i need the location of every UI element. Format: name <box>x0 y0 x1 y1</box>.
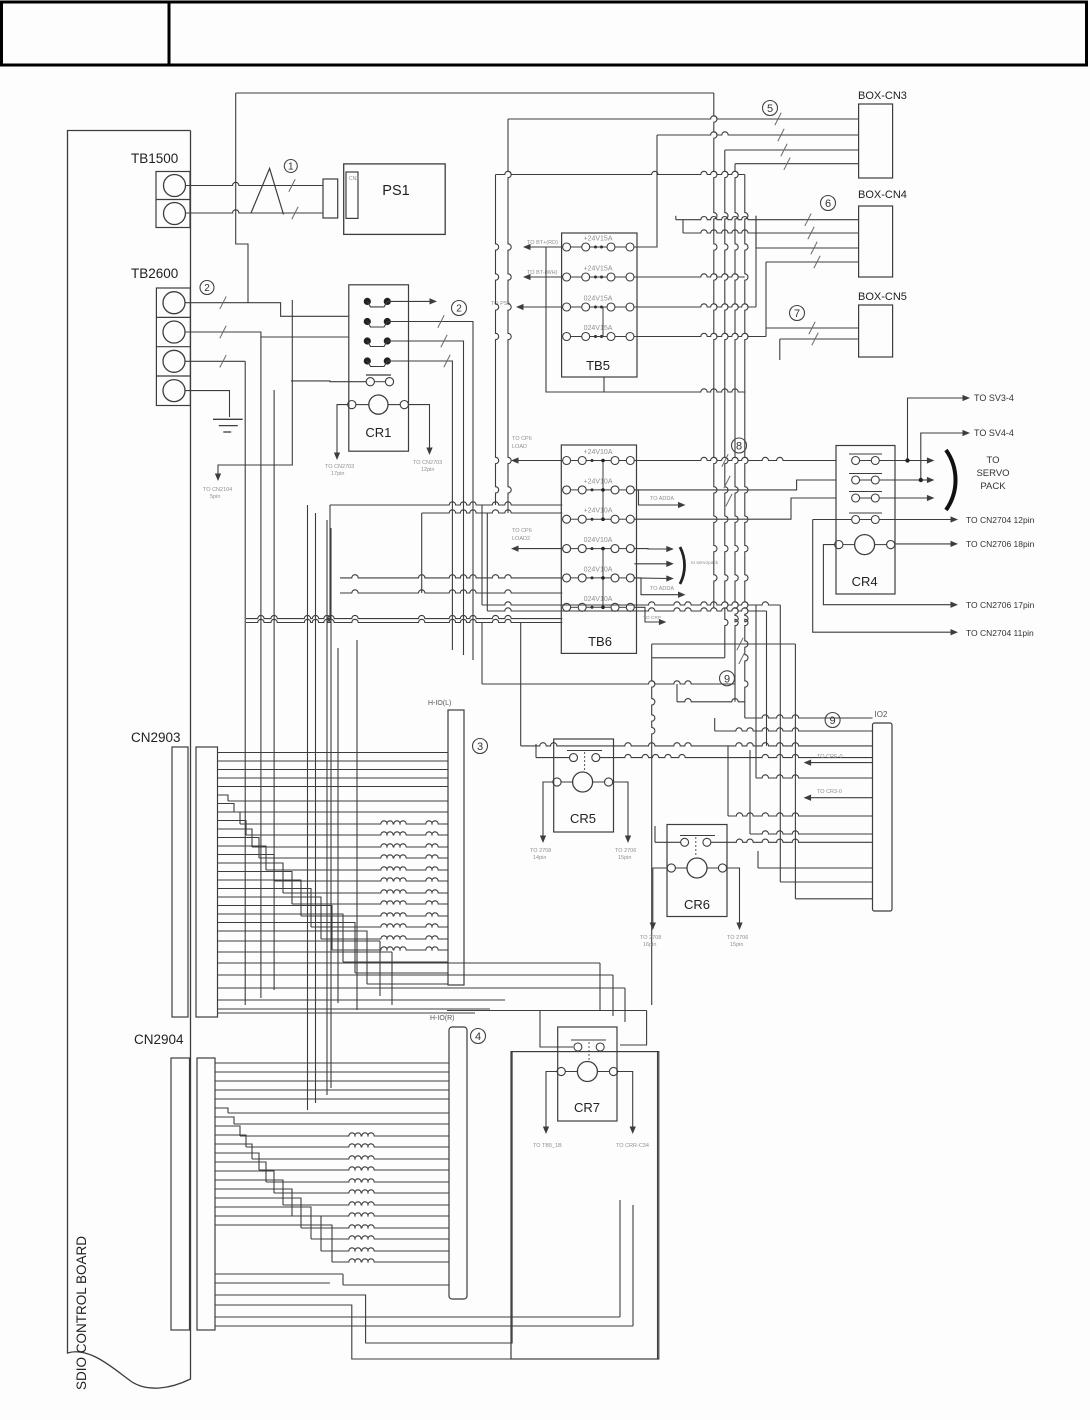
CR4 feed wire 3 <box>634 498 836 519</box>
svg-text:7: 7 <box>794 308 800 320</box>
CR4 contact row 4 <box>852 516 860 524</box>
CN2904 bottom harness wires <box>215 1273 343 1275</box>
CR7 enclosure rect <box>511 1052 659 1359</box>
IO2 box <box>873 723 893 911</box>
IO2 wire y834 <box>749 750 751 834</box>
svg-text:6: 6 <box>825 198 831 210</box>
CN2904 wires to right <box>215 1316 620 1318</box>
svg-text:TO: TO <box>986 455 999 466</box>
TB5 row3 right wire <box>634 304 756 307</box>
CR1 contact row 4 <box>364 357 371 364</box>
TB2600 row4 wire to ground <box>185 391 230 417</box>
left corridor vertical D <box>218 300 292 476</box>
svg-text:5pin: 5pin <box>210 494 220 500</box>
svg-text:15pin: 15pin <box>618 855 631 861</box>
CR7 contact <box>571 1039 606 1041</box>
TB6 row2 right wire TO ADDA <box>634 490 680 505</box>
svg-text:17pin: 17pin <box>331 471 344 477</box>
left corridor vertical H <box>330 528 332 1088</box>
left corridor vertical C <box>273 390 275 990</box>
IO2 wire y718 <box>744 702 746 718</box>
CN2904 loop wires to CR7 enclosure <box>215 1052 512 1343</box>
vertical 651 down <box>652 658 655 1005</box>
svg-text:3: 3 <box>477 741 483 753</box>
title block divider <box>168 2 171 65</box>
TB2600 terminal circle 1 <box>163 292 185 314</box>
circled 8 <box>732 438 747 453</box>
wire TB1500-1 to PS1 <box>186 182 324 185</box>
bundle y611 <box>486 513 488 611</box>
connector CN2903 inner <box>196 747 218 1017</box>
CR1 coil <box>369 395 388 414</box>
TB6 row 6 terminals 024V10A <box>563 603 571 611</box>
svg-text:TO CN2703: TO CN2703 <box>413 460 442 466</box>
CR4 coil <box>855 535 875 555</box>
vertical right bus 725 <box>725 150 728 658</box>
title block frame <box>2 2 1087 65</box>
vertical x357 bundle down <box>356 640 358 1010</box>
svg-text:TO ADDA: TO ADDA <box>650 586 674 592</box>
CN2903 lowest wires <box>218 940 381 942</box>
svg-text:BOX-CN3: BOX-CN3 <box>858 90 907 102</box>
circled 2 at TB2600 <box>200 281 214 295</box>
TB6 row 2 terminals +24V10A <box>563 486 571 494</box>
IO2 wire y868 <box>758 867 873 869</box>
CR4 contact row 2 <box>852 476 860 484</box>
circled 7 <box>790 306 805 321</box>
TB5 row1 right wire <box>634 135 657 247</box>
IO2 arrow TO CRE <box>809 762 873 764</box>
relay CR7 box <box>558 1027 617 1121</box>
connector BOX-CN3 <box>859 104 893 178</box>
connector BOX-CN5 <box>859 305 893 357</box>
circled 5 <box>763 101 778 116</box>
svg-text:SDIO CONTROL BOARD: SDIO CONTROL BOARD <box>74 1236 89 1390</box>
relay CR4 box <box>836 446 895 595</box>
svg-text:TO CN2706 17pin: TO CN2706 17pin <box>966 600 1035 610</box>
svg-text:LOAD2: LOAD2 <box>512 536 530 542</box>
wire TB1500-2 to PS1 <box>186 210 324 213</box>
svg-text:+24V10A: +24V10A <box>584 508 613 515</box>
TB5 row 4 terminals 024V15A <box>563 333 571 341</box>
CR1 contact row 3 <box>364 337 371 344</box>
svg-text:TB1500: TB1500 <box>131 151 178 166</box>
svg-text:024V15A: 024V15A <box>584 325 613 332</box>
svg-text:15pin: 15pin <box>730 942 743 948</box>
svg-text:PACK: PACK <box>980 481 1006 492</box>
BOX-CN3 wires <box>508 116 859 119</box>
horizontal bus y215 <box>675 216 677 220</box>
TB5 left feed vertical <box>546 247 563 337</box>
CN2904 to H-IO(R) harness <box>215 1062 449 1064</box>
TB5 row 3 terminals 024V15A <box>563 303 571 311</box>
TB6 row4 left arrow TO CP6 LOAD2 <box>516 548 562 550</box>
connector plug at PS1 <box>323 179 338 218</box>
svg-text:5: 5 <box>767 103 773 115</box>
left corridor vertical F <box>315 513 317 1103</box>
svg-text:CR7: CR7 <box>574 1100 600 1115</box>
svg-text:8: 8 <box>736 440 742 452</box>
left corridor vertical G <box>326 520 328 1095</box>
TB6 servo arc <box>680 547 685 584</box>
svg-text:TO CN2704 11pin: TO CN2704 11pin <box>966 628 1034 638</box>
svg-text:TO CRE-0: TO CRE-0 <box>817 754 843 760</box>
IO2 wire y731 <box>714 718 716 731</box>
svg-text:CR4: CR4 <box>852 574 878 589</box>
bundle y701 <box>677 699 745 702</box>
wire TO CN2706 18pin <box>895 543 953 545</box>
connector CN2903 outer <box>172 747 188 1017</box>
svg-text:BOX-CN4: BOX-CN4 <box>858 189 907 201</box>
bundle y605 <box>481 505 483 605</box>
svg-text:CN2: CN2 <box>349 176 359 182</box>
CR1 aux contact <box>366 374 391 376</box>
circled 1 at PS1 feed <box>284 160 297 173</box>
svg-text:TO CP6: TO CP6 <box>512 436 532 442</box>
wire loop above CR7 <box>447 1010 647 1012</box>
circled 3 <box>473 739 488 754</box>
svg-text:TO SV4-4: TO SV4-4 <box>974 428 1014 438</box>
CR6 contact wires <box>655 841 681 843</box>
CR1 coil right wire to CN2703 <box>408 405 429 450</box>
CR4 feed wire 2 <box>634 480 836 490</box>
CR1 row2 wire right <box>387 322 473 661</box>
relay CR1 box <box>349 285 409 451</box>
CR1 contact row 2 <box>364 318 371 325</box>
relay CR5 box <box>554 739 614 832</box>
CR4 row4 left wire <box>813 519 852 521</box>
CR5 contact <box>567 750 602 752</box>
TB6 row 5 terminals 024V10A <box>563 574 571 582</box>
connector CN2 on PS1 <box>346 172 358 218</box>
terminal block TB2600 <box>156 288 190 406</box>
svg-text:TO CN2704 12pin: TO CN2704 12pin <box>966 515 1035 525</box>
svg-text:14pin: 14pin <box>533 855 546 861</box>
TB2600 terminal circle 2 <box>163 321 185 343</box>
CR7 coil <box>577 1062 597 1082</box>
svg-text:TO CP6: TO CP6 <box>512 528 532 534</box>
vertical right bus 713 <box>714 93 717 608</box>
svg-text:TO 2708: TO 2708 <box>640 935 661 941</box>
horizontal bus y174 <box>496 171 745 174</box>
svg-text:+24V10A: +24V10A <box>584 449 613 456</box>
TB5 bottom loop wire <box>546 337 604 393</box>
servo pack arc <box>946 450 956 510</box>
svg-text:TO CN2706 18pin: TO CN2706 18pin <box>966 539 1035 549</box>
wire-count slash 2 <box>292 207 298 219</box>
connector CN2904 outer <box>171 1058 190 1330</box>
TB5 row3 left arrow TO PS <box>521 306 563 308</box>
top bus wire y93 <box>236 92 714 94</box>
CR4 contact row 1 <box>852 457 860 465</box>
TB6 row5 right wire TO ADDA2 <box>634 578 680 595</box>
left corridor vertical B <box>260 337 262 998</box>
IO2 wire y778 <box>755 605 757 778</box>
svg-text:024V10A: 024V10A <box>584 596 613 603</box>
TB6 servo arrows <box>634 548 668 550</box>
CR5 left arrow <box>543 782 553 838</box>
svg-text:TO CRP: TO CRP <box>643 615 661 621</box>
svg-text:LOAD: LOAD <box>512 444 527 450</box>
TB2600 row1 wire <box>185 303 349 317</box>
TB1500 terminal circle 2 <box>164 203 186 225</box>
svg-text:CR6: CR6 <box>684 897 710 912</box>
TB2600 terminal circle 3 <box>163 350 185 372</box>
terminal block TB5 <box>562 233 637 377</box>
CR5 contact wires <box>536 757 570 759</box>
terminal block TB1500 <box>156 172 190 228</box>
bus y505 long <box>329 505 331 619</box>
servo pack arrows <box>908 460 930 462</box>
svg-text:1: 1 <box>288 162 294 173</box>
bus y578 long <box>340 575 562 578</box>
svg-text:TO CN2104: TO CN2104 <box>203 487 232 493</box>
connector BOX-CN4 <box>859 206 893 277</box>
center vertical 495 <box>496 175 499 506</box>
wire-count slashes right of CR1 <box>438 315 444 327</box>
TB5 row2 right wire <box>634 274 745 277</box>
TB2600 row2 wire <box>185 332 349 337</box>
TB6 link rows1-3 <box>602 461 604 520</box>
svg-text:TO 2708: TO 2708 <box>530 848 551 854</box>
TB1500 terminal circle 1 <box>164 175 186 197</box>
svg-text:TB5: TB5 <box>586 358 610 373</box>
svg-text:2: 2 <box>456 304 462 315</box>
svg-text:TO 2706: TO 2706 <box>727 935 748 941</box>
TB6 row 4 terminals 024V10A <box>563 545 571 553</box>
fuse symbol on PS1 feed <box>251 168 284 214</box>
terminal block TB6 <box>561 445 636 653</box>
TB5 mid link <box>602 307 604 337</box>
bus y618 <box>246 615 562 618</box>
BOX-CN5 wires <box>766 327 859 329</box>
CR4 contact row 3 <box>852 494 860 502</box>
TB5 row1 left arrow TO BT+ <box>528 246 563 248</box>
svg-text:SERVO: SERVO <box>976 468 1009 479</box>
center vertical 508 <box>508 119 511 513</box>
wire TO CN2704 12pin <box>879 519 953 521</box>
TB5 row2 left arrow TO BT- <box>528 276 563 278</box>
connector CN2904 inner <box>197 1058 215 1330</box>
bundle y684 <box>481 623 483 685</box>
vertical right bus 745 <box>745 175 748 702</box>
TB6 row1 left arrow TO CP6 LOAD <box>516 460 562 462</box>
bus y593 <box>340 590 562 593</box>
svg-text:CR5: CR5 <box>570 811 596 826</box>
CN2903 to H-IO(L) harness <box>218 752 449 754</box>
left corridor vertical E <box>307 505 309 1110</box>
svg-text:16pin: 16pin <box>643 942 656 948</box>
svg-text:to servopack: to servopack <box>691 560 719 566</box>
TB6 row6 right small arrow <box>634 607 661 622</box>
svg-text:TO CR3-0: TO CR3-0 <box>817 789 842 795</box>
svg-text:TB6: TB6 <box>588 634 612 649</box>
CR7 right arrow <box>618 1072 633 1130</box>
svg-text:024V10A: 024V10A <box>584 537 613 544</box>
TB5 row4 right wire <box>634 333 766 336</box>
bundle y644 <box>652 643 796 645</box>
bus y513 <box>421 513 423 593</box>
CR1 coil left wire to CN2703 <box>337 405 348 455</box>
relay CR6 box <box>667 825 727 917</box>
CR1 contact row 1 <box>364 298 371 305</box>
svg-text:024V10A: 024V10A <box>584 566 613 573</box>
svg-text:TO ADDA: TO ADDA <box>650 496 674 502</box>
wire TO CN2706 17pin <box>823 545 953 605</box>
SDIO control board outline <box>68 131 191 1389</box>
TB6 row 3 terminals +24V10A <box>563 515 571 523</box>
vertical right bus 735 <box>735 164 738 684</box>
svg-text:TO TB5_1B: TO TB5_1B <box>533 1143 562 1149</box>
CR4 feed wire 1 <box>634 457 836 460</box>
circled 9 lower <box>825 713 840 728</box>
svg-text:H-IO(R): H-IO(R) <box>430 1015 455 1022</box>
power supply PS1 box <box>344 164 446 235</box>
TB6 link rows4-6 <box>602 549 604 608</box>
CR1 row4 wire right <box>387 361 452 650</box>
svg-text:TO BT-(WH): TO BT-(WH) <box>527 270 558 276</box>
IO2 bottom wires <box>780 881 872 883</box>
svg-text:+24V15A: +24V15A <box>584 266 613 273</box>
CR1 row1 wire right with arrow <box>387 300 432 302</box>
IO2 arrow TO CR3 <box>809 797 873 799</box>
svg-text:4: 4 <box>475 1031 481 1043</box>
CR5 right arrow <box>613 782 628 838</box>
svg-text:024V15A: 024V15A <box>584 296 613 303</box>
svg-text:12pin: 12pin <box>421 467 434 473</box>
svg-text:PS1: PS1 <box>382 183 409 199</box>
connector H-IO(R) <box>449 1027 467 1299</box>
TB2600 terminal circle 4 <box>163 380 185 402</box>
svg-text:H-IO(L): H-IO(L) <box>428 700 451 707</box>
svg-text:IO2: IO2 <box>875 710 888 719</box>
svg-text:9: 9 <box>830 715 836 727</box>
CR1 aux contact left wire <box>291 380 366 383</box>
BOX-CN4 wires <box>683 230 859 233</box>
vertical x338 <box>337 648 339 1003</box>
svg-text:TO 2706: TO 2706 <box>615 848 636 854</box>
CR1 row3 wire right <box>387 341 463 655</box>
ground <box>213 418 243 420</box>
svg-text:TB2600: TB2600 <box>131 266 178 281</box>
svg-text:CN2904: CN2904 <box>134 1032 184 1047</box>
IO2 wire y816 <box>727 746 729 816</box>
svg-text:CR1: CR1 <box>365 425 391 440</box>
wire TO SV3-4 <box>879 398 965 461</box>
TB6 row 1 terminals +24V10A <box>563 457 571 465</box>
TB5 row 1 terminals +24V15A <box>563 243 571 251</box>
CR6 right arrow <box>727 868 740 925</box>
TB2600 row3 wire <box>185 360 245 362</box>
svg-text:TO BT+(RD): TO BT+(RD) <box>527 240 558 246</box>
wire from PS1 area down to TB2600 bus <box>236 93 248 303</box>
left corridor vertical A <box>244 361 246 1005</box>
CR7 left arrow <box>546 1072 557 1130</box>
svg-text:TO SV3-4: TO SV3-4 <box>974 393 1014 403</box>
CR6 left arrow <box>653 868 667 925</box>
circled 6 <box>821 196 836 211</box>
TB5 row 2 terminals +24V15A <box>563 273 571 281</box>
circled 4 <box>471 1029 486 1044</box>
svg-text:BOX-CN5: BOX-CN5 <box>858 291 907 303</box>
circled 2 right of CR1 <box>452 301 467 316</box>
bus y622 <box>246 619 562 622</box>
CR6 coil <box>687 858 707 878</box>
bundle y657 <box>652 657 725 659</box>
svg-text:+24V15A: +24V15A <box>584 236 613 243</box>
svg-text:TO CN2703: TO CN2703 <box>325 464 354 470</box>
svg-text:CN2903: CN2903 <box>131 730 181 745</box>
circled 9 upper <box>720 671 735 686</box>
IO2 wire y745 <box>520 623 522 746</box>
svg-text:TO CRR-C34: TO CRR-C34 <box>616 1143 649 1149</box>
CR6 contact <box>680 835 715 837</box>
wire-count slash 1 <box>289 179 295 191</box>
svg-text:+24V10A: +24V10A <box>584 478 613 485</box>
wire TO CN2704 11pin <box>813 520 953 633</box>
svg-text:2: 2 <box>204 283 210 294</box>
CR5 coil <box>573 772 593 792</box>
connector H-IO(L) <box>448 710 464 985</box>
CN2903 bottom harness wires <box>218 914 344 962</box>
wire TO SV4-4 <box>879 433 965 480</box>
